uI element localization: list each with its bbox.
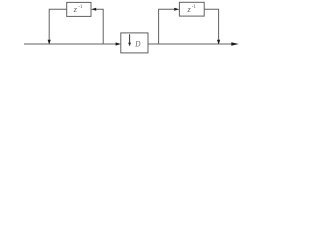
svg-text:z: z (73, 5, 78, 14)
svg-text:D: D (134, 38, 141, 48)
svg-text:-1: -1 (78, 4, 83, 10)
svg-text:-1: -1 (192, 4, 197, 10)
